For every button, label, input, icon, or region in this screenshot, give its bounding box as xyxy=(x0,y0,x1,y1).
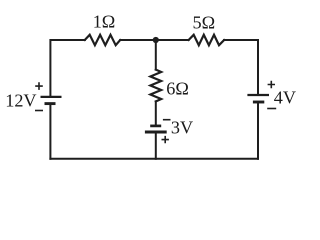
node junction dot xyxy=(153,37,159,43)
resistor R1 1ohm xyxy=(85,35,120,45)
label plus of V3 xyxy=(162,136,169,143)
wire top-left + left upper xyxy=(50,40,84,97)
wire top middle xyxy=(120,39,188,41)
svg-text:5Ω: 5Ω xyxy=(192,12,215,32)
wire bottom xyxy=(50,158,258,160)
label minus of V3 xyxy=(163,119,171,121)
wire top-right + right upper xyxy=(224,40,258,95)
resistor R3 6ohm xyxy=(150,70,161,102)
battery V2 4V plates xyxy=(247,95,269,102)
svg-text:6Ω: 6Ω xyxy=(166,78,189,98)
svg-text:3V: 3V xyxy=(171,118,193,138)
resistor R2 5ohm xyxy=(189,35,225,45)
wire middle lower xyxy=(155,132,157,159)
battery V3 3V plates xyxy=(145,126,167,132)
wire left lower xyxy=(49,104,51,159)
svg-text:4V: 4V xyxy=(274,87,296,107)
svg-text:1Ω: 1Ω xyxy=(93,12,116,32)
wire middle between R3 and battery V3 xyxy=(155,101,157,126)
battery V1 12V plates xyxy=(41,97,62,104)
label minus of V2 xyxy=(267,108,276,110)
wire right lower xyxy=(257,102,259,159)
label plus of V2 xyxy=(268,81,275,88)
label minus of V1 xyxy=(35,110,43,112)
wire middle upper xyxy=(155,40,157,70)
label plus of V1 xyxy=(35,82,43,90)
svg-text:12V: 12V xyxy=(5,90,36,110)
